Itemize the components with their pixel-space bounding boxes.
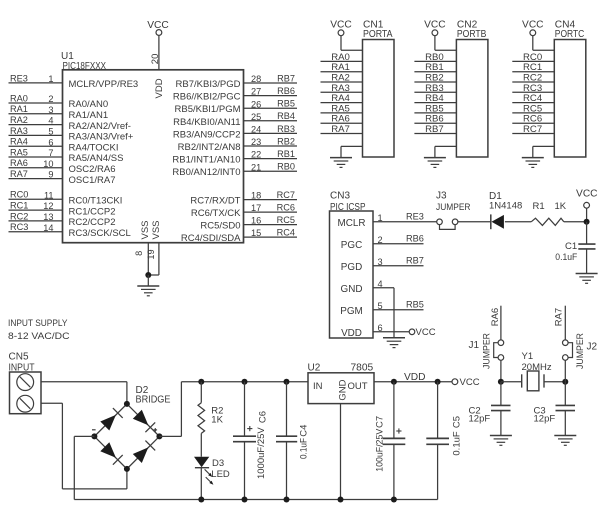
svg-text:28: 28 — [251, 74, 261, 84]
CN4 pin RC5 — [512, 103, 554, 114]
CN3 pin 3 wire / net RB7 — [373, 256, 424, 266]
terminal VCC (VDD net) — [452, 377, 480, 388]
power symbol VCC (CN1) — [330, 20, 362, 51]
CN5 screw terminal 2 — [17, 395, 34, 412]
connector CN4 PORTC body — [554, 40, 586, 158]
label VDD — [404, 372, 426, 383]
svg-text:RB2: RB2 — [277, 136, 295, 146]
wire R1 to VCC node — [564, 221, 587, 223]
junction (C6 bottom) — [242, 497, 248, 503]
label 1N4148 — [489, 201, 522, 212]
svg-text:0.1uF: 0.1uF — [555, 252, 577, 263]
svg-text:RC3: RC3 — [10, 222, 28, 232]
svg-text:RC0: RC0 — [10, 190, 28, 200]
U1 pin 14 RC3 (left) — [9, 222, 131, 239]
svg-text:13: 13 — [43, 212, 53, 222]
svg-text:21: 21 — [251, 162, 261, 172]
wire rail to C6 — [244, 382, 246, 437]
svg-text:4: 4 — [48, 116, 53, 126]
svg-text:RA7: RA7 — [10, 169, 28, 179]
svg-text:12: 12 — [43, 201, 53, 211]
svg-text:RA0/AN0: RA0/AN0 — [69, 99, 109, 110]
U1 pin 5 RA3 (left) — [9, 126, 134, 143]
ground (CN1) — [330, 158, 352, 168]
U1 pin 16 RC5 (right) — [200, 215, 297, 232]
svg-text:RC7: RC7 — [277, 190, 295, 200]
label - (bridge minus) — [92, 429, 96, 431]
svg-text:MCLR: MCLR — [338, 218, 366, 229]
svg-text:RB2/INT2/AN8: RB2/INT2/AN8 — [178, 142, 241, 153]
U1 pin 18 RC7 (right) — [190, 190, 297, 207]
svg-text:RA6: RA6 — [490, 308, 501, 326]
ground (CN3) — [383, 338, 405, 348]
U1 pin 9 RA7 (left) — [9, 169, 116, 186]
svg-text:VDD: VDD — [154, 78, 165, 98]
svg-text:11: 11 — [44, 190, 54, 200]
U1 pin 17 RC6 (right) — [191, 203, 297, 220]
svg-text:10: 10 — [43, 159, 53, 169]
svg-text:IN: IN — [313, 381, 323, 392]
svg-text:RA3/AN3/Vref+: RA3/AN3/Vref+ — [69, 132, 134, 143]
label D1 — [489, 191, 502, 202]
rotated pin name VDD (U1) — [154, 78, 165, 98]
junction (C4 bottom) — [284, 497, 290, 503]
CN1 pin RA3 — [321, 83, 363, 94]
CN2 pin RB2 — [414, 73, 456, 84]
capacitor C1 — [578, 244, 595, 273]
svg-text:26: 26 — [251, 99, 261, 109]
label 7805 — [351, 362, 374, 373]
junction (bridge bottom) — [124, 466, 130, 472]
CN3 pin 3 PGD name — [341, 257, 383, 273]
svg-text:VCC: VCC — [416, 327, 436, 338]
svg-text:2: 2 — [48, 94, 53, 104]
svg-text:RA0: RA0 — [10, 93, 28, 103]
connector CN5 body — [10, 372, 42, 414]
svg-text:1K: 1K — [555, 201, 567, 212]
svg-text:CN3: CN3 — [330, 191, 350, 202]
junction (R2 top) — [198, 379, 204, 385]
wire C4 to ground rail — [286, 442, 288, 500]
svg-text:RB7: RB7 — [406, 256, 424, 266]
label 1K (R2) — [211, 415, 223, 426]
wire to ground (CN1) — [341, 146, 363, 157]
CN4 pin RC6 — [512, 114, 554, 125]
svg-text:GND: GND — [338, 379, 349, 400]
label C7 — [374, 416, 385, 428]
svg-text:RA5: RA5 — [10, 147, 28, 157]
svg-text:RA2: RA2 — [10, 115, 28, 125]
label 0.1uF (C1) — [555, 252, 577, 263]
ground (CN4) — [522, 158, 544, 168]
wire D1 to R1 — [505, 221, 531, 223]
svg-text:R1: R1 — [533, 201, 545, 212]
svg-text:RB6: RB6 — [406, 234, 424, 244]
U1 pin 23 RB2 (right) — [178, 136, 297, 153]
svg-text:RB1/INT1/AN10: RB1/INT1/AN10 — [172, 155, 240, 166]
capacitor C4 — [276, 436, 297, 442]
power symbol VCC (CN2) — [424, 20, 456, 51]
label D2 — [136, 385, 149, 396]
U1 pin 1 RE3 (left) — [9, 73, 139, 90]
capacitor C7 — [383, 438, 406, 444]
svg-text:J2: J2 — [587, 342, 598, 353]
U1 pin 10 RA6 (left) — [9, 158, 116, 175]
svg-text:RB7/KBI3/PGD: RB7/KBI3/PGD — [176, 79, 241, 90]
svg-text:RC5/SD0: RC5/SD0 — [200, 221, 240, 232]
label CN1 — [363, 20, 384, 31]
junction (C6 top) — [242, 379, 248, 385]
wire CN5 pin1 to bridge top — [41, 382, 127, 404]
CN2 pin RB7 — [414, 124, 456, 135]
svg-text:RA4: RA4 — [10, 137, 28, 147]
svg-text:RB7: RB7 — [425, 124, 444, 135]
U1 pin 15 RC4 (right) — [181, 228, 297, 245]
pin name IN (U2) — [313, 381, 323, 392]
wire VDD to C7 — [393, 382, 395, 439]
net label RA7 — [554, 308, 565, 326]
svg-text:RC4/SDI/SDA: RC4/SDI/SDA — [181, 233, 241, 244]
regulator U2 body — [308, 373, 374, 404]
label U2 — [308, 362, 321, 373]
svg-text:1000uF/25V: 1000uF/25V — [256, 427, 267, 479]
CN3 pin 2 wire / net RB6 — [373, 234, 424, 244]
capacitor C5 — [426, 438, 449, 444]
svg-text:INPUT SUPPLY: INPUT SUPPLY — [8, 318, 68, 329]
label 8-12 VAC/DC — [8, 331, 70, 342]
svg-text:RB6//KBI2/PGC: RB6//KBI2/PGC — [173, 92, 241, 103]
wire Y1 left to C2 — [500, 382, 502, 406]
svg-text:CN5: CN5 — [9, 352, 29, 363]
svg-text:27: 27 — [251, 87, 261, 97]
svg-text:12pF: 12pF — [534, 413, 556, 424]
bridge diode (top-right) — [133, 410, 155, 432]
svg-text:RC1: RC1 — [10, 201, 28, 211]
wire RA6 to J1 — [500, 306, 502, 340]
label PORTB — [457, 29, 487, 40]
net label RA6 — [490, 308, 501, 326]
wire bridge minus to ground rail — [74, 436, 94, 499]
diode D1 — [491, 214, 504, 229]
CN1 pin RA2 — [321, 73, 363, 84]
CN2 pin RB3 — [414, 83, 456, 94]
wire C6 to ground rail — [244, 442, 246, 500]
pin number 20 (U1 VDD) — [150, 54, 161, 65]
label INPUT — [9, 362, 35, 373]
label C2 — [469, 405, 481, 416]
svg-text:23: 23 — [251, 137, 261, 147]
label 0.1uF (C5) — [452, 431, 463, 455]
CN3 pin 4 GND name — [341, 279, 383, 295]
svg-text:Y1: Y1 — [522, 351, 534, 362]
junction (C5 top) — [435, 379, 441, 385]
rotated pin name VSS (U1 pin 8) — [140, 220, 151, 239]
power symbol VCC (CN4) — [522, 20, 554, 51]
rotated pin name VSS (U1 pin 19) — [151, 220, 162, 239]
svg-text:JUMPER: JUMPER — [436, 202, 471, 213]
svg-text:BRIDGE: BRIDGE — [136, 394, 171, 405]
CN2 pin RB6 — [414, 114, 456, 125]
svg-text:RC4: RC4 — [277, 228, 295, 238]
ground (C1) — [576, 274, 598, 284]
svg-text:C4: C4 — [299, 425, 310, 437]
svg-text:C7: C7 — [374, 416, 385, 428]
connector CN1 PORTA body — [363, 40, 395, 158]
svg-text:1K: 1K — [211, 415, 223, 426]
svg-text:PGD: PGD — [341, 262, 362, 273]
label C1 — [565, 241, 577, 252]
wire ground rail — [74, 499, 437, 501]
CN2 pin RB5 — [414, 103, 456, 114]
capacitor C6 — [233, 436, 256, 442]
svg-text:VDD: VDD — [341, 328, 362, 339]
svg-text:14: 14 — [43, 223, 53, 233]
label J3 — [436, 191, 447, 202]
wire VDD to C5 — [437, 382, 439, 439]
junction (C7 bottom) — [391, 497, 397, 503]
CN1 pin RA0 — [321, 52, 363, 63]
U1 pin 3 RA1 (left) — [9, 104, 109, 121]
svg-text:8: 8 — [134, 251, 144, 256]
label Y1 — [522, 351, 534, 362]
CN4 pin RC2 — [512, 73, 554, 84]
svg-text:0.1uF: 0.1uF — [452, 431, 463, 455]
CN3 pin 4 wire to ground — [373, 288, 394, 338]
label 20MHz (Y1) — [522, 362, 552, 373]
svg-text:RB5: RB5 — [406, 300, 424, 310]
svg-text:J3: J3 — [436, 191, 447, 202]
wire to ground (CN4) — [533, 146, 555, 157]
svg-text:3: 3 — [48, 105, 53, 115]
label C3 — [534, 405, 546, 416]
jumper J1 — [494, 340, 504, 360]
svg-text:6: 6 — [48, 137, 53, 147]
wire bridge plus to supply rail — [159, 382, 181, 437]
svg-text:VDD: VDD — [404, 372, 426, 383]
svg-text:RC7: RC7 — [523, 124, 542, 135]
svg-text:RC2: RC2 — [10, 211, 28, 221]
junction (R1/C1/VCC) — [584, 219, 590, 225]
label JUMPER (J2) — [575, 333, 586, 369]
bridge diode (left-top) — [100, 408, 122, 430]
svg-text:7: 7 — [48, 148, 53, 158]
wire rail to R2 — [200, 382, 202, 403]
label R2 — [211, 405, 223, 416]
svg-text:JUMPER: JUMPER — [575, 333, 586, 369]
plus sign (C6) — [247, 426, 252, 431]
plus sign (C7) — [396, 428, 401, 433]
resistor R1 — [531, 218, 564, 225]
CN2 pin RB1 — [414, 62, 456, 73]
label CN3 — [330, 191, 350, 202]
junction (bridge left) — [91, 433, 97, 439]
svg-text:C5: C5 — [452, 416, 463, 428]
svg-text:RA4/TOCKI: RA4/TOCKI — [69, 142, 119, 153]
LED arrows (D3) — [205, 469, 214, 485]
svg-text:RC1/CCP2: RC1/CCP2 — [69, 206, 116, 217]
label C6 — [258, 411, 269, 423]
resistor R2 — [198, 403, 205, 434]
wire D3 to ground rail — [200, 468, 202, 500]
power symbol VCC (D1/R1 branch) — [576, 188, 598, 222]
label CN5 — [9, 352, 29, 363]
CN4 pin RC1 — [512, 62, 554, 73]
capacitor C2 — [491, 405, 511, 435]
svg-text:PIC18FXXX: PIC18FXXX — [63, 61, 107, 72]
svg-text:RC2/CCP2: RC2/CCP2 — [69, 217, 116, 228]
junction (VSS) — [145, 272, 151, 278]
label INPUT SUPPLY — [8, 318, 68, 329]
U1 pin 28 RB7 (right) — [176, 73, 297, 90]
ground (C2) — [490, 436, 512, 446]
wire to ground (U1) — [147, 275, 149, 286]
bridge diode (bottom-right) — [133, 441, 155, 463]
CN3 pin 6 VDD name — [341, 323, 383, 339]
svg-text:PGM: PGM — [340, 306, 363, 317]
junction (Y1 right node) — [562, 379, 568, 385]
ground (CN2) — [424, 158, 446, 168]
svg-text:1N4148: 1N4148 — [489, 201, 522, 212]
label BRIDGE — [136, 394, 171, 405]
pin name GND (U2) — [338, 379, 349, 400]
svg-text:5: 5 — [48, 127, 53, 137]
U1 pin 25 RB4 (right) — [173, 111, 297, 128]
svg-text:RA7: RA7 — [331, 124, 350, 135]
CN3 pin 1 MCLR name — [338, 213, 383, 229]
svg-text:VCC: VCC — [460, 377, 480, 388]
svg-text:20: 20 — [150, 54, 161, 65]
wire C5 to ground rail — [437, 444, 439, 499]
wire VCC node to C1 — [586, 222, 588, 244]
U1 pin 7 RA5 (left) — [9, 147, 124, 164]
U1 pin 26 RB5 (right) — [175, 99, 298, 116]
svg-text:RA2/AN2/Vref-: RA2/AN2/Vref- — [69, 121, 131, 132]
junction (bridge top) — [124, 401, 130, 407]
svg-text:RB5: RB5 — [277, 99, 295, 109]
wire supply rail (bridge to U2 IN) — [181, 381, 308, 383]
label 12pF (C3) — [534, 413, 556, 424]
svg-text:GND: GND — [341, 284, 363, 295]
label PIC ICSP — [330, 202, 366, 213]
CN4 pin RC4 — [512, 93, 554, 104]
U1 pin 6 RA4 (left) — [9, 137, 119, 154]
U1 pin 24 RB3 (right) — [173, 124, 297, 141]
junction (C4 top) — [284, 379, 290, 385]
junction (Y1 left node) — [498, 379, 504, 385]
svg-text:RB3/AN9/CCP2: RB3/AN9/CCP2 — [173, 129, 241, 140]
svg-text:RC3/SCK/SCL: RC3/SCK/SCL — [69, 228, 131, 239]
CN5 screw terminal 1 — [17, 374, 34, 391]
svg-text:RC5: RC5 — [277, 215, 295, 225]
svg-text:C1: C1 — [565, 241, 577, 252]
label PORTC — [555, 29, 585, 40]
U1 pin 22 RB1 (right) — [172, 149, 297, 166]
label PIC18FXXX — [63, 61, 107, 72]
power symbol VCC (U1 pin 20) — [147, 20, 169, 70]
svg-text:RB3: RB3 — [277, 124, 295, 134]
svg-text:OUT: OUT — [348, 381, 368, 392]
bridge D2 diamond outline — [94, 404, 159, 469]
svg-text:25: 25 — [251, 112, 261, 122]
CN1 pin RA5 — [321, 103, 363, 114]
svg-text:D3: D3 — [212, 458, 224, 469]
svg-text:RA1/AN1: RA1/AN1 — [69, 110, 109, 121]
svg-text:J1: J1 — [469, 340, 480, 351]
svg-text:RB5/KBI1/PGM: RB5/KBI1/PGM — [175, 104, 241, 115]
svg-text:MCLR/VPP/RE3: MCLR/VPP/RE3 — [69, 79, 139, 90]
terminal VCC (CN3 pin 6) — [409, 327, 435, 338]
U1 pin 19 VSS wire — [146, 243, 159, 275]
U1 pin 13 RC2 (left) — [9, 211, 116, 228]
ground (C3) — [554, 436, 576, 446]
CN3 pin 2 PGC name — [341, 235, 383, 251]
label JUMPER (J3) — [436, 202, 471, 213]
junction (bridge right) — [156, 433, 162, 439]
wire CN5 pin2 to bridge bottom — [41, 403, 127, 489]
svg-text:RA7: RA7 — [554, 308, 565, 326]
U1 pin 12 RC1 (left) — [9, 201, 116, 218]
label D3 — [212, 458, 224, 469]
CN1 pin RA4 — [321, 93, 363, 104]
svg-text:RB1: RB1 — [277, 149, 295, 159]
label J1 — [469, 340, 480, 351]
svg-text:PORTC: PORTC — [555, 29, 585, 40]
svg-text:RC6: RC6 — [277, 203, 295, 213]
label CN2 — [457, 20, 478, 31]
label JUMPER (J1) — [482, 333, 493, 369]
CN2 pin RB0 — [414, 52, 456, 63]
wire J3 to D1 — [458, 221, 491, 223]
U1 pin 21 RB0 (right) — [172, 162, 297, 179]
wire U2 OUT / net VDD — [374, 381, 452, 383]
CN4 pin RC7 — [512, 124, 554, 135]
crystal Y1 — [501, 371, 565, 391]
svg-text:VCC: VCC — [576, 188, 598, 199]
svg-text:RB0: RB0 — [277, 162, 295, 172]
svg-text:PGC: PGC — [341, 240, 362, 251]
svg-text:18: 18 — [251, 191, 261, 201]
label 0.1uF (C4) — [299, 438, 310, 459]
svg-text:JUMPER: JUMPER — [482, 333, 493, 369]
CN3 pin 5 PGM name — [340, 301, 382, 317]
label 12pF (C2) — [469, 413, 491, 424]
label U1 — [61, 51, 74, 62]
wire Y1 right to C3 — [564, 382, 566, 406]
svg-text:PORTB: PORTB — [457, 29, 487, 40]
junction (D3 bottom) — [198, 497, 204, 503]
svg-text:RA5/AN4/SS: RA5/AN4/SS — [69, 153, 124, 164]
CN4 pin RC3 — [512, 83, 554, 94]
svg-text:VSS: VSS — [140, 220, 151, 239]
LED D3 — [194, 457, 209, 468]
svg-text:RA1: RA1 — [10, 104, 28, 114]
CN2 pin RB4 — [414, 93, 456, 104]
svg-text:RC7/RX/DT: RC7/RX/DT — [190, 196, 240, 207]
CN3 pin 1 wire / net RE3 — [373, 212, 437, 222]
jumper J3 — [437, 219, 458, 229]
ground (U1) — [137, 286, 159, 296]
svg-text:OSC1/RA7: OSC1/RA7 — [69, 175, 116, 186]
junction (C7 top) — [391, 379, 397, 385]
bridge diode (left-bottom) — [100, 442, 122, 464]
jumper J2 — [563, 340, 573, 360]
svg-text:9: 9 — [48, 170, 53, 180]
svg-text:LED: LED — [211, 469, 230, 480]
svg-text:19: 19 — [146, 249, 156, 259]
svg-text:8-12 VAC/DC: 8-12 VAC/DC — [8, 331, 70, 342]
label 1000uF/25V (C6) — [256, 427, 267, 479]
wire J1 to crystal node — [500, 360, 502, 381]
